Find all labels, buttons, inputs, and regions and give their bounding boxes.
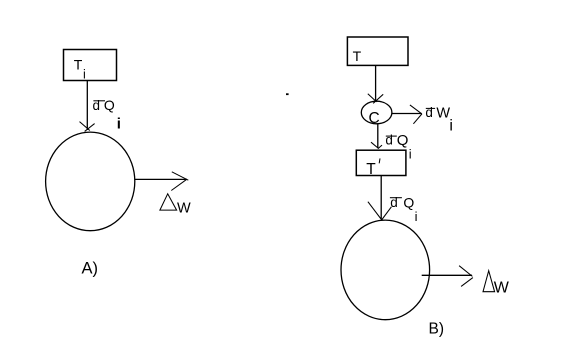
reservoir box T (diagram B) (347, 37, 408, 65)
label Delta W (diagram A) (160, 194, 191, 217)
label dQ_i (into system B) (390, 194, 418, 224)
svg-text:d: d (93, 98, 101, 113)
system ellipse (diagram B) (341, 220, 430, 320)
svg-text:Q: Q (403, 194, 414, 210)
label Delta W (diagram B) (483, 271, 510, 297)
arrowhead work of C (410, 105, 422, 124)
svg-text:i: i (83, 68, 86, 82)
arrowhead work output A (171, 172, 188, 191)
svg-text:T: T (74, 57, 83, 73)
svg-text:i: i (117, 116, 121, 133)
svg-text:W: W (494, 280, 510, 297)
svg-text:B): B) (429, 321, 445, 338)
svg-text:A): A) (82, 260, 99, 278)
svg-text:i: i (449, 117, 453, 134)
wire: heat flow from T_i into system A (86, 81, 88, 131)
wire: heat from T' into system B (380, 176, 382, 220)
svg-text:d: d (390, 195, 398, 210)
wire: work output of system A (135, 178, 187, 180)
svg-text:Q: Q (104, 97, 115, 113)
arrowhead into system A (80, 122, 95, 132)
arrowhead into system B (368, 202, 392, 221)
label dW_i (425, 105, 453, 134)
svg-text:d: d (425, 105, 433, 120)
wire: work output of C (392, 113, 422, 115)
reservoir box T_i (diagram A) (64, 50, 117, 82)
system ellipse (diagram A) (46, 132, 135, 231)
wire: heat from C to T' (377, 124, 379, 148)
svg-text:d: d (385, 133, 393, 148)
svg-text:i: i (409, 147, 412, 162)
arrowhead into C (368, 94, 383, 104)
arrowhead work output B (459, 266, 473, 287)
label dQ_i (diagram A) (93, 97, 121, 133)
label dQ_i (C to T') (385, 132, 411, 162)
svg-text:i: i (415, 209, 418, 224)
reservoir box T' (diagram B) (356, 150, 406, 178)
wire: work output of system B (422, 274, 472, 276)
stray dot between diagrams (286, 93, 289, 95)
svg-text:W: W (436, 105, 450, 121)
svg-text:T: T (353, 48, 362, 64)
svg-text:W: W (177, 200, 191, 216)
Carnot engine circle C (361, 101, 392, 127)
wire: heat from T into Carnot engine C (375, 65, 377, 101)
arrowhead into T' (371, 142, 382, 148)
svg-text:T: T (366, 161, 376, 178)
svg-text:Q: Q (397, 132, 409, 149)
